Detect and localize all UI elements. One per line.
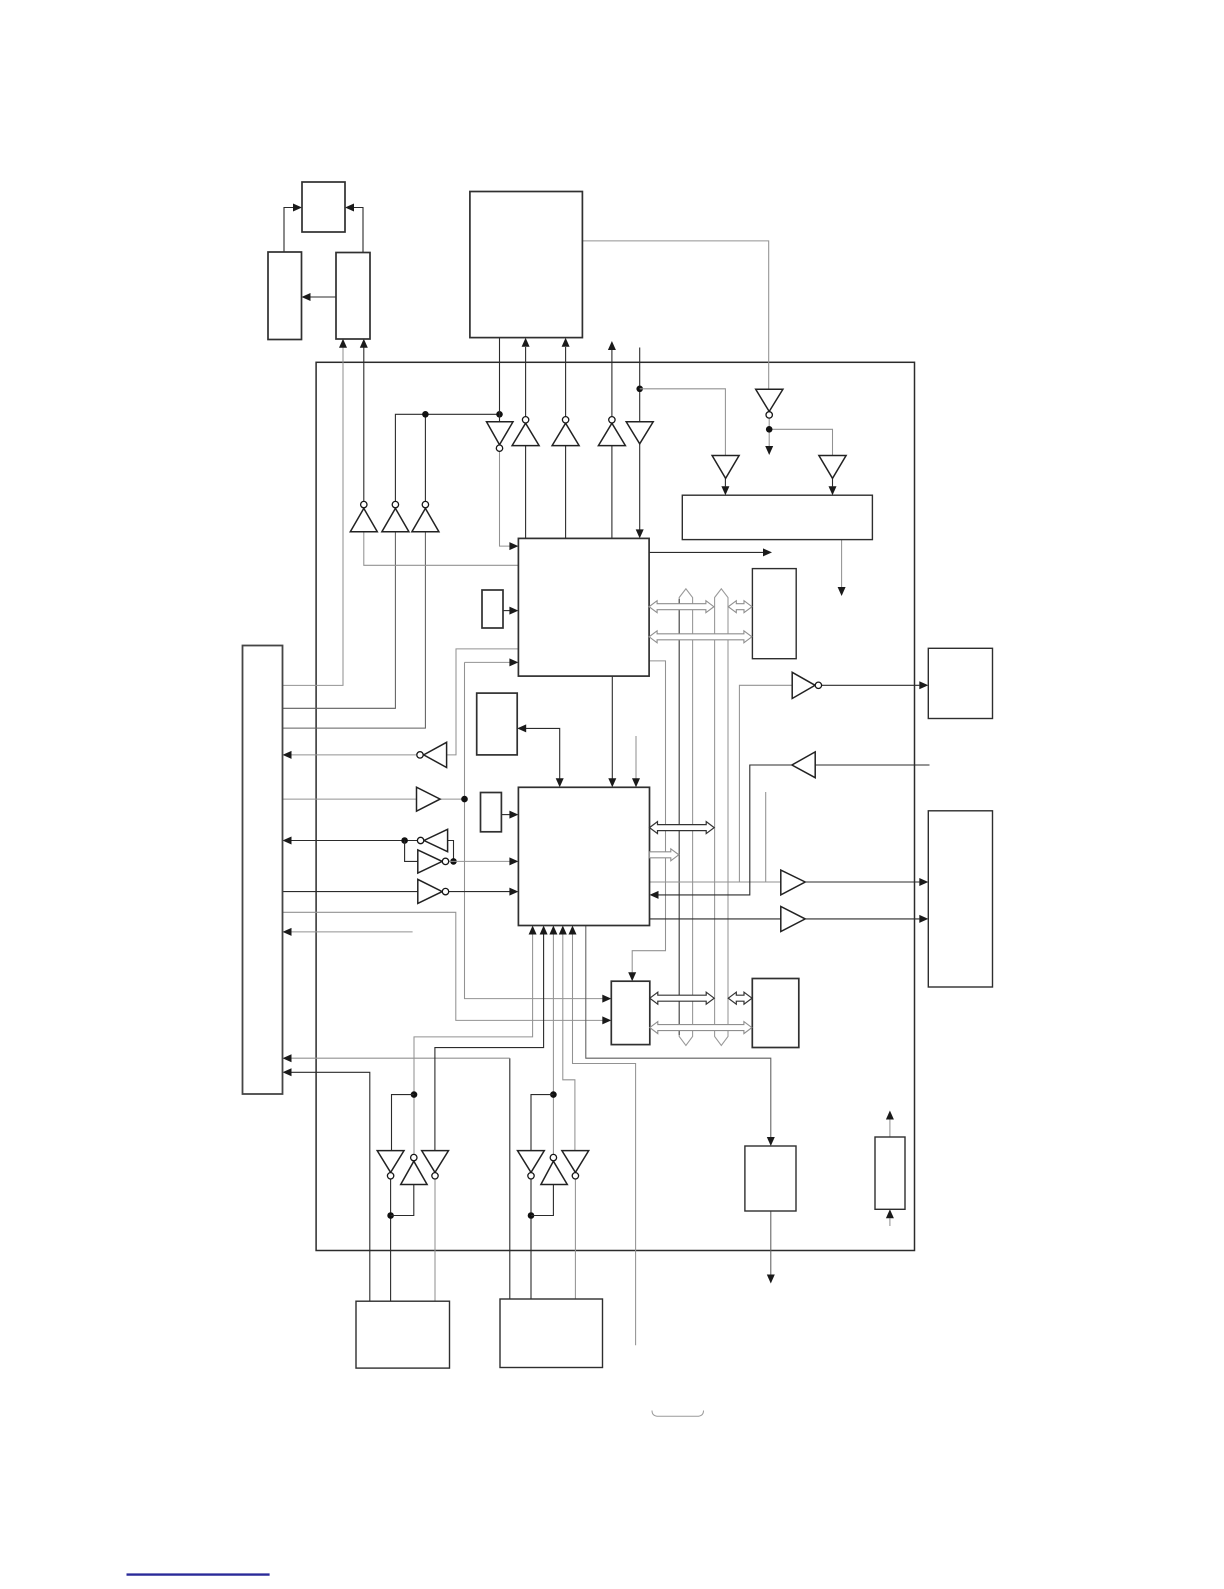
block: left pin connector <box>243 646 283 1095</box>
inverter L2 (latch) <box>424 829 448 851</box>
wire: right osc block top to top small block <box>353 208 363 253</box>
pad driver G1L <box>377 1151 404 1173</box>
wire: pad data line 3 from DRAM core <box>552 934 554 1154</box>
wire: pad line to left connector and lower pad block <box>509 1058 511 1299</box>
inverter D1 <box>487 422 514 445</box>
wire: latch cross coupling left <box>405 841 418 862</box>
block: register MR1 <box>477 693 518 755</box>
inverter U10 <box>382 508 409 531</box>
wire: pad receiver G2M input <box>531 1185 553 1216</box>
wire: register SR1 to CPU core <box>503 610 510 612</box>
wire: latch cross coupling right <box>448 841 454 862</box>
wire: ROM block down to inverter D1 <box>499 338 501 422</box>
pad receiver G2M <box>541 1161 567 1184</box>
wire: left connector to inverter U10 input <box>283 532 396 709</box>
wire: pad data line 5 from DRAM core <box>573 934 636 1345</box>
wire: buffer U3 output up to ROM block <box>565 347 567 417</box>
wire: pad data line 4 from DRAM core <box>563 934 575 1150</box>
buffer D5 <box>626 422 653 444</box>
bus arrow: DRAM core to address bus <box>650 849 679 861</box>
wire: pad data line 2 from DRAM core <box>435 934 544 1150</box>
inverter U9 <box>350 508 377 531</box>
wire: buffer D5 output into CPU core <box>639 444 641 530</box>
inverter R1 (latch) <box>418 850 442 873</box>
inverter U3 <box>552 423 579 445</box>
wire: inverter L1 output to left connector <box>292 754 417 756</box>
pad driver G2R <box>562 1151 589 1173</box>
bus arrow: DRAM controller to data bus <box>650 992 714 1004</box>
block: CPU core (big square 1) <box>518 538 649 676</box>
wire: external pin through buffer TRIL into DRAM core <box>659 765 792 895</box>
wire: inverter R2 output to DRAM core <box>449 891 510 893</box>
wire: inverter U9 output up to osc block <box>363 347 365 501</box>
wire: inverter R3 output to refresh pad block <box>822 684 920 686</box>
bus arrow: DRAM controller to latch RR3 <box>650 1022 752 1034</box>
wire: clock block left to top small block <box>284 208 294 253</box>
block: DRAM controller block <box>611 981 650 1044</box>
data bus (vertical) <box>715 589 728 1046</box>
wire: CPU core strobe out right <box>649 551 763 553</box>
wire: CPU core to inverter L1 input <box>447 649 519 755</box>
wire: inverter D7 output node <box>769 418 832 456</box>
bus arrow: CPU core to address bus <box>649 601 714 613</box>
block: pad cell right top <box>928 648 992 718</box>
wire: buffer U2 output up to ROM block <box>525 347 527 417</box>
wire: U11 output riser <box>424 414 426 501</box>
node: junction pad group 2 <box>550 1091 557 1098</box>
footer rule (blue) <box>127 1573 270 1575</box>
wire: control register output down <box>841 540 843 588</box>
block: clock generator right <box>336 253 370 340</box>
block: pad cell right middle <box>928 811 992 987</box>
wire: left connector to DRAM controller block <box>283 912 603 1020</box>
bus arrow: DRAM core to data bus <box>650 822 715 834</box>
address bus (vertical) <box>679 589 692 1046</box>
wire: buffer B output to right pad block <box>805 918 919 920</box>
block: bottom pad connector right <box>500 1299 603 1368</box>
node: junction on D5 input <box>636 386 643 393</box>
wire: buffer U3 input from CPU core <box>565 446 567 539</box>
wire: buffer U4 input from CPU core <box>611 446 613 539</box>
inverter R2 <box>418 879 442 903</box>
wire: branch to pad driver G2L <box>531 1095 553 1151</box>
wire: inverter U9 input from CPU core <box>364 532 519 566</box>
block: refresh counter block <box>875 1137 905 1209</box>
block: control register (long) <box>682 495 872 539</box>
block: register SR1 <box>482 590 503 628</box>
inverter L1 <box>424 742 447 767</box>
pad driver G2L <box>518 1151 545 1173</box>
buffer D8 <box>819 456 846 479</box>
inverter U2 <box>512 423 539 445</box>
bus arrow: data bus to latch RR1 <box>728 601 752 613</box>
inverter U4 <box>598 423 625 445</box>
wire: refresh counter block bottom pin <box>889 1218 891 1226</box>
bracket mark bottom <box>652 1411 704 1417</box>
node: junction pad group 1 <box>411 1091 418 1098</box>
wire: CAS net from DRAM core to buffer B <box>650 918 781 920</box>
block: ROM (top middle) <box>470 192 583 338</box>
wire: refresh counter block top pin <box>889 1119 891 1137</box>
block: clock generator left <box>268 252 302 340</box>
node: junction at D1 input <box>496 411 503 418</box>
buffer TRIL (input pad) <box>792 752 815 778</box>
wire: L-net into register MR1 and DRAM core <box>517 724 526 732</box>
wire: pad driver G2L output to pad <box>530 1179 532 1299</box>
wire: left connector to lower-left pad block <box>292 1072 370 1301</box>
block: oscillator cell (top small) <box>302 182 345 232</box>
wire: register SR2 to DRAM core <box>501 814 509 816</box>
wire: inverter D1 output to CPU core <box>500 451 510 546</box>
wire: stub into DRAM core top <box>635 736 637 779</box>
wire: CPU core to DRAM controller block <box>632 661 665 973</box>
wire: pad driver G2R output to pad <box>574 1179 576 1299</box>
wire: pad driver G1L output to pad <box>390 1179 392 1301</box>
wire: pad receiver G1M input <box>391 1185 414 1216</box>
buffer A <box>781 870 805 895</box>
block: DRAM core (big square 2) <box>518 787 649 925</box>
wire: pad data line 1 from DRAM core <box>414 934 533 1154</box>
inverter D7 <box>756 389 783 411</box>
pad driver G1R <box>422 1151 449 1173</box>
wire: ROM block right edge to inverter D7 <box>582 241 768 389</box>
inverter R3 <box>792 672 815 698</box>
wire: DRAM core output to output pad block and pin <box>586 926 771 1138</box>
wire: left connector to buffer B1 input <box>283 798 417 800</box>
wire: pad driver G1R output to pad <box>434 1179 436 1301</box>
block: data latch RR1 <box>752 569 796 659</box>
buffer B1 <box>417 787 441 811</box>
node: junction pad group 1 bottom <box>387 1212 394 1219</box>
inverter U11 <box>412 508 439 531</box>
buffer D6 <box>712 456 739 479</box>
wire: stub into left connector <box>292 931 413 933</box>
wire: branch to pad driver G1L <box>392 1095 415 1151</box>
wire: CPU core to DRAM core <box>611 676 613 778</box>
block: register SR2 <box>481 793 502 832</box>
bus arrow: data bus to latch RR3 <box>728 992 752 1004</box>
wire: latch inverter L2 output to left connector <box>292 840 418 842</box>
node: junction at D7 output <box>766 426 773 433</box>
wire: left connector to inverter U11 input <box>283 532 426 728</box>
wire: buffer U4 output to external pin <box>611 350 613 417</box>
pad receiver G1M <box>401 1161 427 1184</box>
chip boundary <box>316 362 914 1250</box>
wire: latch inverter R1 output to DRAM core <box>449 860 510 862</box>
wire: buffer A output to right pad block <box>805 881 919 883</box>
buffer B <box>781 907 805 932</box>
wire: buffer D8 output into control register <box>832 478 834 486</box>
wire: external pin into buffer D5 <box>639 348 641 422</box>
wire: osc block to clock block <box>310 296 336 298</box>
wire: branch from D5 input to buffer D6 <box>640 389 726 456</box>
block: bottom pad connector left <box>356 1301 450 1368</box>
wire: output pad block to external pin <box>770 1211 772 1275</box>
node: junction on row 414 <box>422 411 429 418</box>
wire: darker rail on address bus left edge <box>678 599 680 1035</box>
node: junction latch left <box>401 837 408 844</box>
node: junction at B1 output <box>461 796 468 803</box>
node: junction latch right <box>450 858 457 865</box>
block: output pad block <box>745 1146 796 1211</box>
wire: buffer D6 output into control register <box>724 478 726 486</box>
block: data latch RR3 <box>752 979 799 1048</box>
wire: buffer U2 input from CPU core <box>525 446 527 539</box>
wire: U10 output riser and node row <box>395 414 499 501</box>
wire: left connector to inverter R2 input <box>283 891 418 893</box>
bus arrow: CPU core to latch RR1 <box>649 631 752 643</box>
node: junction pad group 2 bottom <box>528 1212 535 1219</box>
wire: RAS net from DRAM core to buffer A <box>650 685 793 882</box>
wire: left connector to osc block (crystal in) <box>283 347 344 685</box>
wire: buffer B1 output to vertical net <box>440 662 602 998</box>
